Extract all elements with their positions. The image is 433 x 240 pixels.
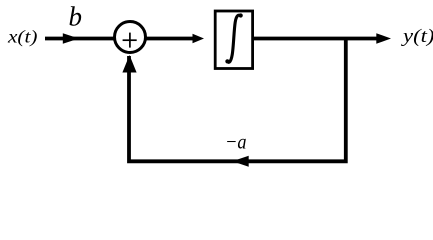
svg-text:x(t): x(t): [7, 26, 38, 47]
svg-text:−a: −a: [225, 130, 247, 154]
svg-text:y(t): y(t): [401, 26, 433, 47]
svg-text:b: b: [69, 2, 83, 32]
